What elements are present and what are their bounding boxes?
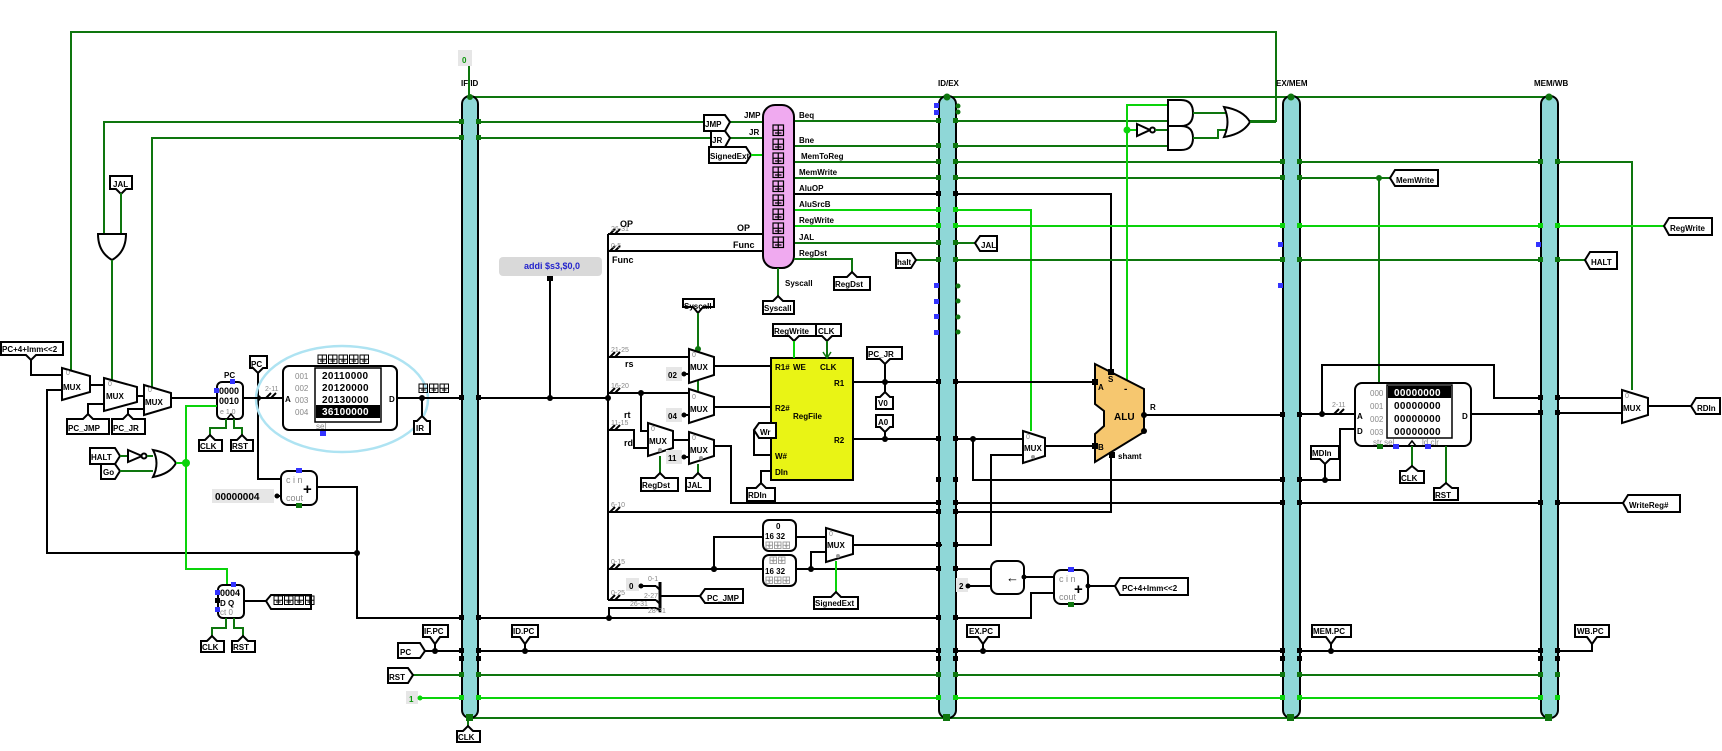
svg-text:0-15: 0-15 [611, 559, 625, 566]
wire MemToReg line [794, 161, 1541, 163]
wire PC+4 feedback [47, 390, 357, 553]
svg-text:+: + [303, 481, 312, 498]
svg-text:0-5: 0-5 [611, 243, 621, 250]
svg-text:RST: RST [233, 643, 249, 652]
wire counter Q out [244, 600, 266, 602]
splitter fan 0-5 Func [610, 243, 634, 265]
svg-text:003: 003 [1370, 428, 1384, 437]
mux MB (rt/syscall) [689, 389, 714, 423]
svg-text:Go: Go [103, 468, 114, 477]
tunnel RegWrite (regfile) [773, 324, 816, 358]
tunnel JAL (IDEX out) [975, 236, 997, 251]
tunnel SignedExt (control) [709, 147, 763, 163]
wire mux1 out [90, 384, 104, 386]
tunnel 总周期数 [266, 595, 314, 609]
wire WriteReg# pipeline line [714, 446, 1541, 503]
svg-text:20120000: 20120000 [322, 383, 369, 394]
adder branch target [1054, 567, 1091, 607]
svg-text:R2: R2 [834, 436, 845, 445]
svg-text:+: + [1074, 581, 1083, 598]
wire PC to ROM A [243, 397, 283, 399]
mux ME (JAL dest) [689, 432, 714, 464]
counter cycle [215, 582, 244, 618]
splitter fan 11-15 rd [610, 420, 633, 448]
tunnel Go [101, 464, 120, 479]
label 指令字 [419, 384, 428, 393]
svg-text:0: 0 [66, 370, 70, 377]
svg-text:MUX: MUX [145, 398, 163, 407]
tunnel PC+4+Imm<<2 (EX) [1115, 578, 1188, 595]
svg-text:CLK: CLK [458, 733, 475, 742]
splitter fan 0-25 [610, 590, 625, 600]
wire WB mux input2 [1558, 412, 1622, 414]
wire PC+4 high bits to combiner [606, 608, 656, 621]
tunnel PC (above) [250, 356, 267, 373]
tunnel HALT [90, 448, 120, 464]
svg-text:MEM/WB: MEM/WB [1534, 79, 1568, 88]
tunnel RegDst (control) [834, 272, 870, 290]
not-gate G4 (eq invert) [1124, 124, 1169, 136]
tunnel HALT (right) [1585, 252, 1617, 269]
svg-text:0: 0 [651, 426, 655, 433]
svg-text:RegFile: RegFile [793, 412, 822, 421]
wire JAL select [697, 464, 699, 473]
wire ALU result bypass [1322, 365, 1541, 414]
tunnel RDIn (right) [1691, 398, 1720, 414]
wire and2 out [1193, 130, 1226, 138]
mux MH (MemToReg) [1622, 390, 1648, 423]
tunnel A0 [876, 415, 893, 442]
wire and1 out [1193, 112, 1226, 114]
and-gate G5 (beq) [1168, 100, 1193, 126]
shifter left [991, 561, 1027, 594]
tunnel RST (counter) [232, 636, 255, 652]
wire zero-ext out [796, 536, 826, 538]
and-gate G6 (bne) [1168, 126, 1193, 150]
mux MA (rs/syscall) [689, 349, 714, 383]
wire counter clk [212, 618, 226, 636]
wire PC_JMP feed [88, 404, 104, 419]
pins IF/ID [459, 119, 481, 721]
tunnel CLK (counter) [201, 636, 224, 652]
wire PC bottom line [425, 650, 1558, 652]
wire MemWrite line [794, 177, 1390, 179]
svg-text:CLK: CLK [818, 327, 835, 336]
mux MF (ALU B src) [1023, 431, 1045, 463]
svg-text:MDIn: MDIn [1312, 449, 1332, 458]
svg-text:D: D [1462, 412, 1468, 421]
constant 02 [666, 367, 689, 381]
pipeline register ID/EX [938, 79, 960, 718]
svg-text:0010: 0010 [219, 396, 239, 406]
wire mux3 out to PC [171, 397, 217, 399]
svg-text:JAL: JAL [799, 233, 814, 242]
svg-text:MemToReg: MemToReg [801, 152, 844, 161]
constant 2 (shifter) [956, 578, 991, 592]
control unit 单周期硬布线控制器 [763, 105, 794, 268]
wire PC rst [234, 419, 242, 435]
tunnel CLK (PC) [199, 435, 222, 451]
wire zero-ext feed [711, 537, 763, 572]
svg-text:JMP: JMP [744, 111, 761, 120]
svg-text:RegDst: RegDst [642, 481, 670, 490]
svg-text:11: 11 [668, 454, 677, 463]
svg-text:IF.PC: IF.PC [424, 627, 444, 636]
svg-text:04: 04 [668, 412, 677, 421]
svg-text:RegDst: RegDst [799, 249, 827, 258]
wire WB.PC segment [1558, 644, 1592, 651]
svg-text:V0: V0 [878, 399, 888, 408]
svg-text:2-27: 2-27 [644, 593, 658, 600]
tunnel MEM.PC [1312, 625, 1351, 654]
svg-text:26-31: 26-31 [630, 601, 648, 608]
constant 0 (jump pad) [626, 578, 656, 591]
tunnel WriteReg# (right) [1623, 495, 1680, 512]
tunnel CLK (regfile) [816, 324, 841, 358]
wire rt to muxC [641, 393, 648, 431]
svg-text:002: 002 [1370, 415, 1384, 424]
svg-text:B: B [1098, 443, 1104, 452]
wire adder2 out [1088, 585, 1115, 587]
svg-text:Bne: Bne [799, 136, 815, 145]
svg-text:WriteReg#: WriteReg# [1629, 501, 1669, 510]
svg-text:PC_JR: PC_JR [113, 424, 139, 433]
mux M3 (jr) [144, 385, 171, 415]
svg-text:0: 0 [692, 435, 696, 442]
splitter bus vertical [605, 234, 611, 600]
tunnel CLK (IFID bottom) [457, 718, 480, 742]
junction R2 branch [970, 436, 976, 442]
adder PC+4 [281, 468, 317, 508]
svg-text:0: 0 [108, 381, 112, 388]
splitter fan 26-31 OP [610, 219, 633, 234]
svg-text:PC: PC [224, 371, 235, 380]
svg-text:EX/MEM: EX/MEM [1276, 79, 1308, 88]
tunnel CLK (mem) [1400, 466, 1424, 483]
wire muxC out [673, 439, 689, 441]
svg-text:0: 0 [1026, 434, 1030, 441]
wire rd to muxC [608, 430, 648, 448]
svg-text:MUX: MUX [690, 363, 708, 372]
tunnel halt (IDEX) [896, 253, 916, 268]
tunnel PC_JMP (left) [67, 414, 109, 434]
svg-text:W#: W# [775, 452, 788, 461]
svg-text:shamt: shamt [1118, 452, 1142, 461]
pins ID/EX [934, 94, 961, 722]
tunnel MDIn [1311, 446, 1339, 483]
svg-text:CLK: CLK [200, 442, 217, 451]
svg-text:001: 001 [1370, 402, 1384, 411]
svg-text:MUX: MUX [1623, 404, 1641, 413]
svg-text:Func: Func [733, 240, 755, 250]
mux M2 (jump) [104, 378, 137, 411]
svg-text:02: 02 [668, 371, 677, 380]
splitter fan 2-11 (mem A) [1319, 402, 1346, 417]
svg-text:←: ← [1006, 570, 1019, 585]
pipeline register MEM/WB [1534, 79, 1568, 718]
svg-text:0: 0 [1625, 393, 1629, 400]
svg-text:0: 0 [692, 394, 696, 401]
svg-text:RegWrite: RegWrite [774, 327, 810, 336]
wire halt WB segment [1558, 259, 1585, 261]
ellipse instruction-memory highlight [256, 346, 428, 452]
wire mux2 out [137, 395, 144, 397]
svg-text:2-11: 2-11 [1332, 402, 1346, 409]
wire RST bottom line [413, 674, 1541, 676]
tunnel JAL (top left) [110, 176, 132, 234]
svg-text:e 1 0: e 1 0 [220, 409, 236, 416]
svg-text:002: 002 [295, 384, 309, 393]
pins EX/MEM [1278, 94, 1302, 722]
svg-text:A: A [1098, 383, 1104, 392]
svg-text:OP: OP [620, 219, 633, 229]
svg-text:36100000: 36100000 [322, 407, 369, 418]
svg-text:00000000: 00000000 [1394, 414, 1441, 425]
tunnel RST (mem) [1434, 483, 1458, 500]
svg-text:1: 1 [409, 695, 414, 704]
svg-text:R1#: R1# [775, 363, 790, 372]
svg-text:SignedExt: SignedExt [815, 599, 854, 608]
wire muxG out [853, 544, 942, 546]
svg-text:addi $s3,$0,0: addi $s3,$0,0 [524, 261, 580, 271]
wire const1 bottom line [420, 697, 1541, 699]
constant 11 [666, 450, 689, 464]
or-gate G3 (halt/go) [120, 450, 190, 477]
svg-text:R: R [1150, 403, 1156, 412]
wire JR line [152, 138, 763, 388]
tunnel Wr (WriteReg#) [754, 423, 776, 455]
mux M1 (branch) [62, 368, 90, 400]
tunnel RST (bottom) [388, 668, 413, 683]
svg-text:rs: rs [625, 359, 634, 369]
wire Syscall down [777, 268, 779, 296]
wire Bne line [794, 145, 1168, 147]
svg-text:CLK: CLK [820, 363, 837, 372]
wire PC clk [210, 419, 226, 435]
svg-text:11-15: 11-15 [611, 420, 628, 427]
tunnel PC_JR (left) [112, 414, 145, 434]
wire muxB out [714, 406, 771, 408]
wire shamt line [608, 455, 1111, 512]
tunnel MemWrite (EXMEM) [1376, 170, 1438, 186]
wire CLK bottom line [470, 717, 1549, 719]
splitter fan 0-15 [610, 559, 625, 569]
svg-text:21-25: 21-25 [611, 347, 629, 354]
svg-text:28-31: 28-31 [648, 608, 666, 615]
wire R1 to ALU A [853, 381, 1095, 383]
svg-text:ct 0: ct 0 [220, 608, 233, 617]
wire rt to muxB [608, 392, 689, 394]
svg-text:WB.PC: WB.PC [1577, 627, 1604, 636]
svg-text:c i n: c i n [286, 475, 303, 485]
svg-text:A: A [1357, 412, 1363, 421]
svg-text:Func: Func [612, 255, 634, 265]
wire ALU R to EXMEM [1144, 414, 1283, 416]
splitter fan 6-10 [610, 502, 625, 512]
svg-text:CLK: CLK [1401, 474, 1418, 483]
wire JAL line [794, 242, 975, 244]
svg-text:JAL: JAL [113, 180, 128, 189]
svg-text:sel: sel [316, 422, 326, 431]
wire mem A line [1300, 413, 1355, 415]
svg-text:PC_JMP: PC_JMP [707, 594, 740, 603]
svg-text:D: D [1357, 427, 1363, 436]
svg-text:0: 0 [462, 56, 467, 65]
pipeline register EX/MEM [1276, 79, 1308, 718]
svg-text:EX.PC: EX.PC [969, 627, 993, 636]
tunnel EX.PC [967, 625, 999, 654]
wire mem D out [1471, 413, 1541, 415]
wire PC enable [186, 406, 217, 463]
svg-text:16-20: 16-20 [611, 383, 629, 390]
svg-text:00000000: 00000000 [1394, 388, 1441, 399]
svg-text:RegWrite: RegWrite [799, 216, 835, 225]
svg-text:-: - [1124, 384, 1127, 395]
svg-text:MEM.PC: MEM.PC [1313, 627, 1345, 636]
svg-text:Syscall: Syscall [785, 279, 813, 288]
tunnel RegDst (muxC) [641, 473, 678, 491]
svg-text:PC+4+Imm<<2: PC+4+Imm<<2 [2, 345, 58, 354]
extender sign (16-32) [763, 555, 796, 586]
splitter combiner PC_JMP [630, 576, 700, 615]
not-gate G2 (halt) [120, 450, 153, 462]
mux MG (SignedExt) [826, 528, 853, 562]
svg-text:00000004: 00000004 [215, 492, 260, 503]
svg-text:AluOP: AluOP [799, 184, 824, 193]
svg-text:PC_JMP: PC_JMP [68, 424, 101, 433]
mux MC (rt/rd RegDst) [648, 423, 673, 456]
wire halt line [916, 259, 1541, 261]
svg-text:000: 000 [1370, 389, 1384, 398]
svg-text:RegWrite: RegWrite [1670, 224, 1706, 233]
svg-text:PC_JR: PC_JR [868, 350, 894, 359]
tunnel Syscall (control) [763, 296, 794, 314]
svg-text:MUX: MUX [63, 383, 81, 392]
svg-text:16 32: 16 32 [765, 567, 786, 576]
data memory RAM [1355, 383, 1471, 449]
svg-text:CLK: CLK [202, 643, 219, 652]
svg-text:004: 004 [295, 408, 309, 417]
svg-text:MemWrite: MemWrite [1396, 176, 1435, 185]
wire RegDst down [794, 259, 852, 272]
wire WB mux out to RDIn [1648, 405, 1691, 407]
junction dots misc [354, 550, 717, 572]
wire PC_JR feed [128, 409, 144, 419]
svg-text:RDIn: RDIn [1697, 404, 1716, 413]
svg-text:PC: PC [400, 648, 411, 657]
svg-text:0000: 0000 [219, 386, 239, 396]
or-gate G7 (branch) [1224, 107, 1276, 137]
wire imm16 line [608, 568, 991, 570]
svg-text:MemWrite: MemWrite [799, 168, 838, 177]
svg-text:RST: RST [389, 673, 405, 682]
svg-text:0004: 0004 [220, 588, 240, 598]
svg-text:20130000: 20130000 [322, 395, 369, 406]
splitter fan 16-20 rt [610, 383, 631, 420]
tunnel WB.PC [1575, 625, 1609, 644]
svg-text:0-1: 0-1 [648, 576, 658, 583]
pins MEM/WB [1536, 94, 1560, 722]
tunnel JMP [704, 111, 761, 131]
svg-text:ID/EX: ID/EX [938, 79, 960, 88]
wire mem clk [1411, 446, 1413, 466]
wire muxF in2 [956, 455, 1023, 545]
svg-text:JAL: JAL [981, 241, 996, 250]
svg-text:JMP: JMP [705, 120, 722, 129]
svg-text:RegDst: RegDst [835, 280, 863, 289]
wire mem clr [1445, 446, 1447, 483]
svg-text:S: S [1108, 375, 1114, 384]
wire R2 to mem data [973, 429, 1355, 480]
wire WriteReg# WB segment [1558, 502, 1623, 504]
svg-text:A: A [285, 395, 291, 404]
tunnel Syscall (mux select) [683, 299, 714, 391]
svg-text:SignedExt: SignedExt [710, 152, 749, 161]
tunnel SignedExt (muxG) [814, 592, 858, 609]
tunnel IR [414, 395, 430, 434]
wire R2 line [853, 438, 1023, 440]
wire RegDst select [659, 456, 661, 473]
wire ALU eq to branch gates [1127, 105, 1168, 383]
svg-text:JAL: JAL [687, 481, 702, 490]
svg-text:R2#: R2# [775, 404, 790, 413]
svg-text:str sel: str sel [1373, 438, 1395, 447]
svg-text:WE: WE [793, 363, 807, 372]
wire AluOP line [794, 194, 1111, 372]
wire imm26 to combiner [608, 599, 656, 601]
svg-text:D: D [389, 395, 395, 404]
svg-text:001: 001 [295, 372, 309, 381]
svg-text:2: 2 [959, 582, 964, 591]
tunnel PC (bottom) [398, 643, 425, 658]
wire WB mux input1 [1558, 397, 1622, 399]
svg-text:DIn: DIn [775, 468, 788, 477]
svg-text:0: 0 [629, 582, 634, 591]
wire MemToReg WB segment [1558, 162, 1632, 390]
svg-text:AluSrcB: AluSrcB [799, 200, 831, 209]
tunnel PC_JR (R1) [867, 347, 902, 385]
extender zero (0 16-32) [763, 520, 796, 551]
wire SignedExt select [835, 561, 837, 592]
wire RegWrite WB segment [1558, 225, 1664, 227]
wire muxA out [714, 365, 771, 367]
svg-text:0: 0 [776, 522, 781, 531]
svg-text:JR: JR [749, 128, 759, 137]
svg-text:ID.PC: ID.PC [513, 627, 535, 636]
wire RegWrite line [794, 225, 1541, 227]
svg-text:RST: RST [232, 442, 248, 451]
svg-text:MUX: MUX [1024, 444, 1042, 453]
svg-text:JR: JR [712, 136, 722, 145]
svg-text:Beq: Beq [799, 111, 814, 120]
svg-text:0: 0 [148, 387, 152, 394]
svg-text:Wr: Wr [760, 428, 771, 437]
svg-text:RDIn: RDIn [748, 491, 767, 500]
svg-text:6-10: 6-10 [611, 502, 625, 509]
wire IFID to bus [478, 397, 608, 399]
tunnel RST (PC) [231, 435, 253, 451]
tunnel PC+4+Imm<<2 (left) [1, 342, 63, 375]
svg-text:rd: rd [624, 438, 633, 448]
wire MemWrite to memory str [1378, 178, 1380, 382]
svg-text:HALT: HALT [1591, 258, 1612, 267]
svg-text:0: 0 [829, 531, 833, 538]
tunnel V0 [876, 382, 893, 409]
svg-text:00000000: 00000000 [1394, 401, 1441, 412]
display addi $s3,$0,0 [499, 257, 602, 401]
splitter fan 2-11 on A [265, 386, 279, 398]
svg-text:PC: PC [251, 360, 262, 369]
